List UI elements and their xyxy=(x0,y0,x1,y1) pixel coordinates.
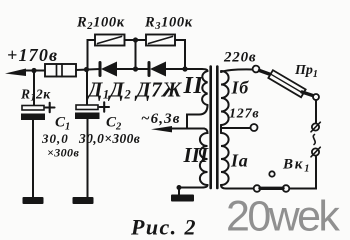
AC tilde xyxy=(313,135,315,145)
svg-text:Пр1: Пр1 xyxy=(294,63,318,80)
wire xyxy=(289,157,316,189)
svg-text:Д1Д2Д7Ж: Д1Д2Д7Ж xyxy=(86,78,182,102)
wire xyxy=(135,40,137,69)
node junction xyxy=(182,66,187,71)
resistor R3 xyxy=(146,35,175,46)
ground xyxy=(73,197,94,204)
svg-text:20wek: 20wek xyxy=(226,193,340,240)
diode Д1 xyxy=(99,63,102,76)
transformer core xyxy=(209,67,212,189)
transformer winding Iб xyxy=(221,69,253,72)
svg-text:III: III xyxy=(183,143,209,167)
wire xyxy=(175,40,185,69)
svg-text:+170в: +170в xyxy=(7,45,58,65)
svg-text:C1: C1 xyxy=(55,115,70,133)
svg-text:×300в: ×300в xyxy=(47,146,79,160)
fuse Пр1 xyxy=(260,71,273,76)
wire xyxy=(166,68,202,70)
svg-text:II: II xyxy=(183,73,205,99)
svg-text:30,0: 30,0 xyxy=(41,131,69,146)
svg-text:C2: C2 xyxy=(106,115,122,133)
resistor R1 xyxy=(45,64,76,77)
wire xyxy=(86,70,88,106)
transformer winding II xyxy=(202,69,208,105)
wire tap 127в xyxy=(221,125,251,128)
svg-text:Рис. 2: Рис. 2 xyxy=(130,215,197,240)
resistor R2 xyxy=(95,35,125,46)
wire xyxy=(24,70,45,72)
node junction C1 xyxy=(31,68,36,73)
ground xyxy=(178,188,180,196)
svg-text:R2100к: R2100к xyxy=(76,15,125,33)
node junction xyxy=(133,66,138,71)
output arrow +170в xyxy=(5,69,26,77)
svg-text:Вк1: Вк1 xyxy=(282,157,311,175)
svg-text:220в: 220в xyxy=(223,50,256,66)
svg-text:~6,3в: ~6,3в xyxy=(141,111,181,127)
wire tap 6,3в xyxy=(170,128,204,130)
resistor R2 branch wire xyxy=(88,40,96,70)
ground xyxy=(23,197,44,204)
mains terminal 2 xyxy=(312,148,319,155)
svg-text:Iб: Iб xyxy=(231,78,250,98)
svg-text:R3100к: R3100к xyxy=(144,15,193,33)
wire xyxy=(33,71,35,107)
transformer winding III xyxy=(200,129,208,186)
svg-text:R12к: R12к xyxy=(20,87,51,104)
output arrow 6,3в xyxy=(151,126,172,132)
wire xyxy=(117,68,149,70)
mains terminal wire xyxy=(315,100,317,123)
node junction xyxy=(133,37,138,42)
svg-text:127в: 127в xyxy=(229,107,259,122)
node junction xyxy=(177,185,182,190)
svg-text:Ia: Ia xyxy=(230,151,249,171)
switch Вк1 xyxy=(254,185,261,192)
capacitor C1 xyxy=(22,106,44,111)
svg-text:30,0×300в: 30,0×300в xyxy=(78,131,140,146)
node junction C2/R2 xyxy=(84,67,89,72)
wire xyxy=(125,39,147,41)
terminal 220в xyxy=(253,66,260,73)
capacitor C2 xyxy=(76,105,98,110)
transformer winding Ia xyxy=(220,128,222,133)
wire xyxy=(76,69,100,70)
terminal 127в xyxy=(251,124,258,131)
mains terminal 1 xyxy=(312,123,319,130)
diode Д2 xyxy=(148,63,151,76)
